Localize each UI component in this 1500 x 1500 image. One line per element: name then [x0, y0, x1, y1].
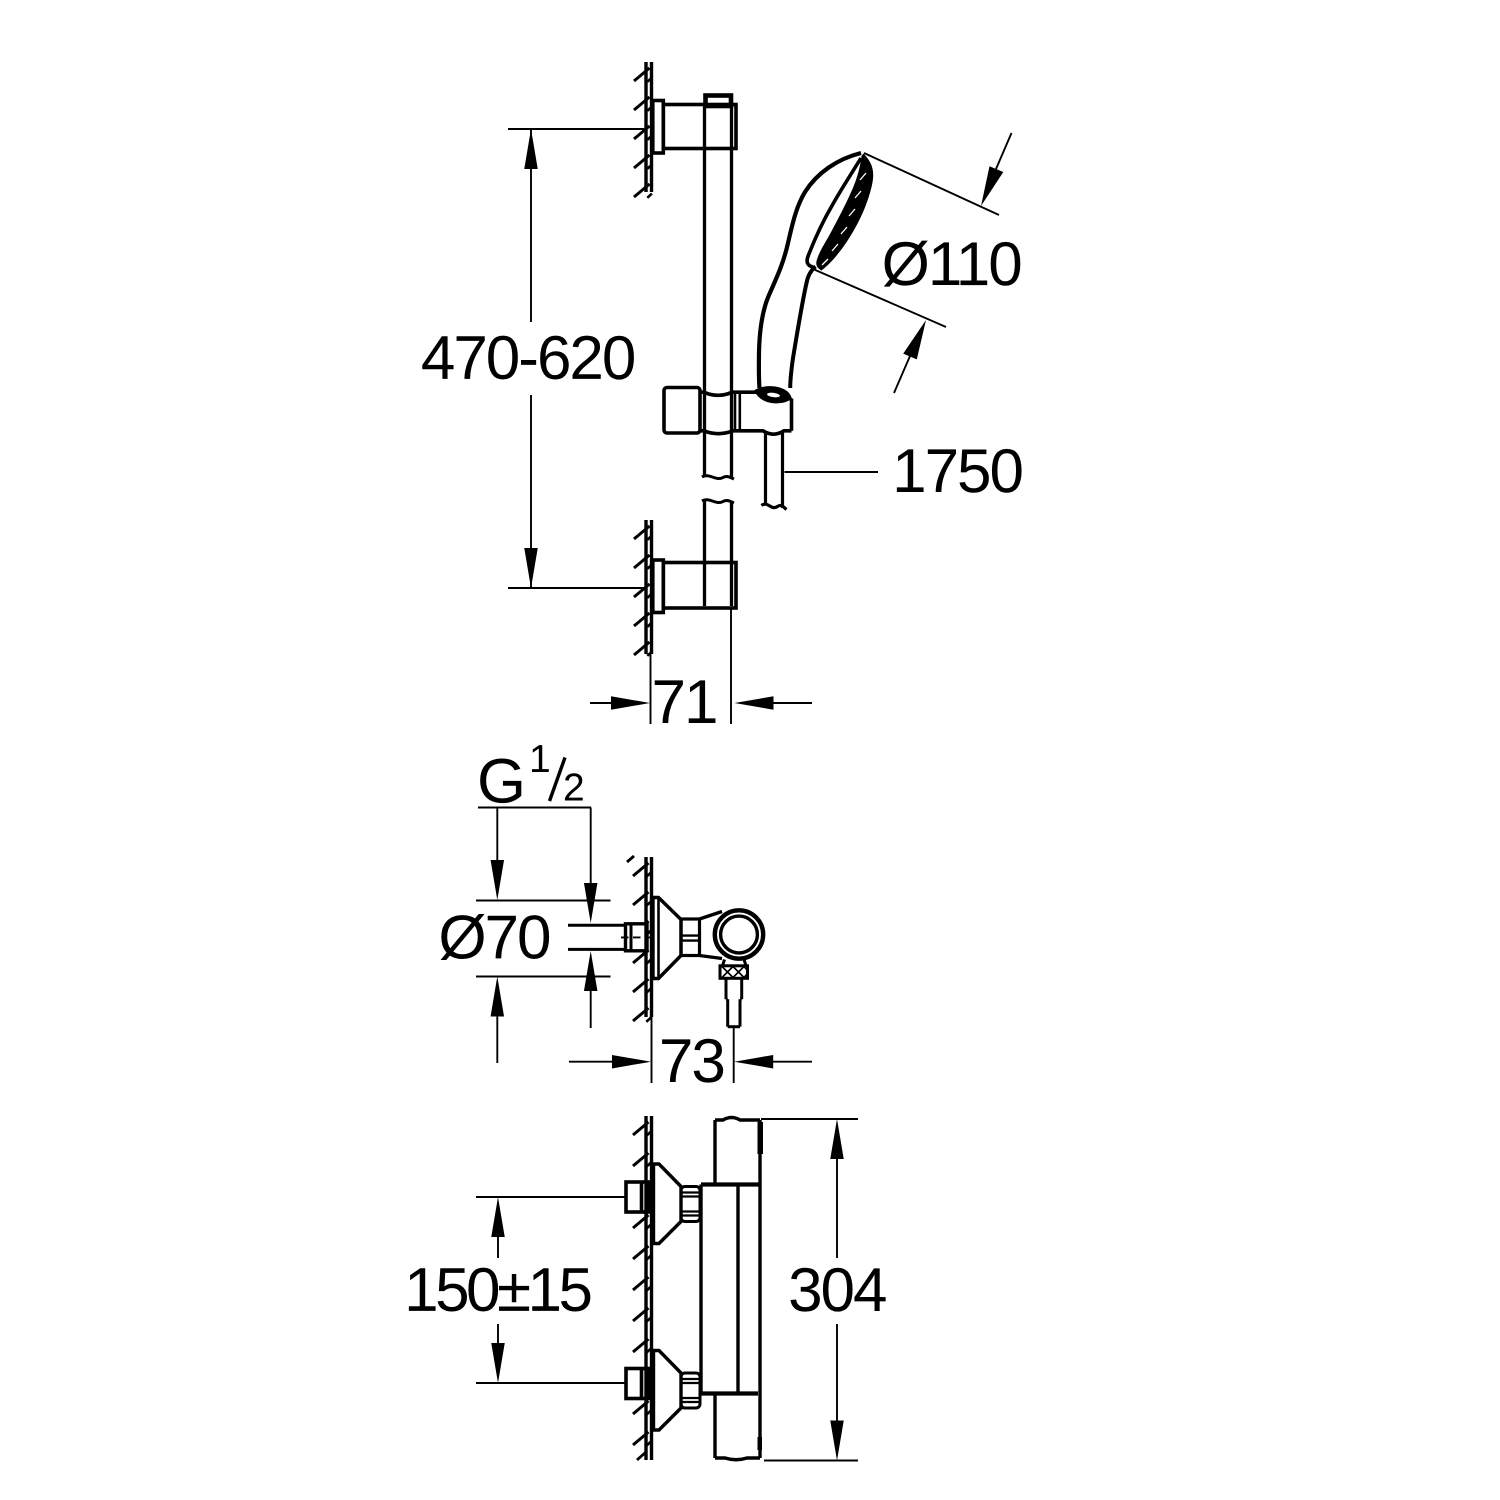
- svg-text:2: 2: [563, 767, 585, 810]
- svg-text:150±15: 150±15: [404, 1256, 590, 1325]
- svg-text:1750: 1750: [892, 437, 1022, 506]
- svg-text:Ø110: Ø110: [882, 230, 1022, 299]
- svg-text:304: 304: [788, 1256, 886, 1325]
- svg-text:1: 1: [529, 738, 551, 781]
- svg-text:Ø70: Ø70: [438, 903, 550, 972]
- svg-text:G: G: [477, 746, 526, 816]
- svg-text:71: 71: [652, 668, 717, 737]
- svg-text:470-620: 470-620: [421, 324, 635, 393]
- svg-text:73: 73: [659, 1027, 724, 1096]
